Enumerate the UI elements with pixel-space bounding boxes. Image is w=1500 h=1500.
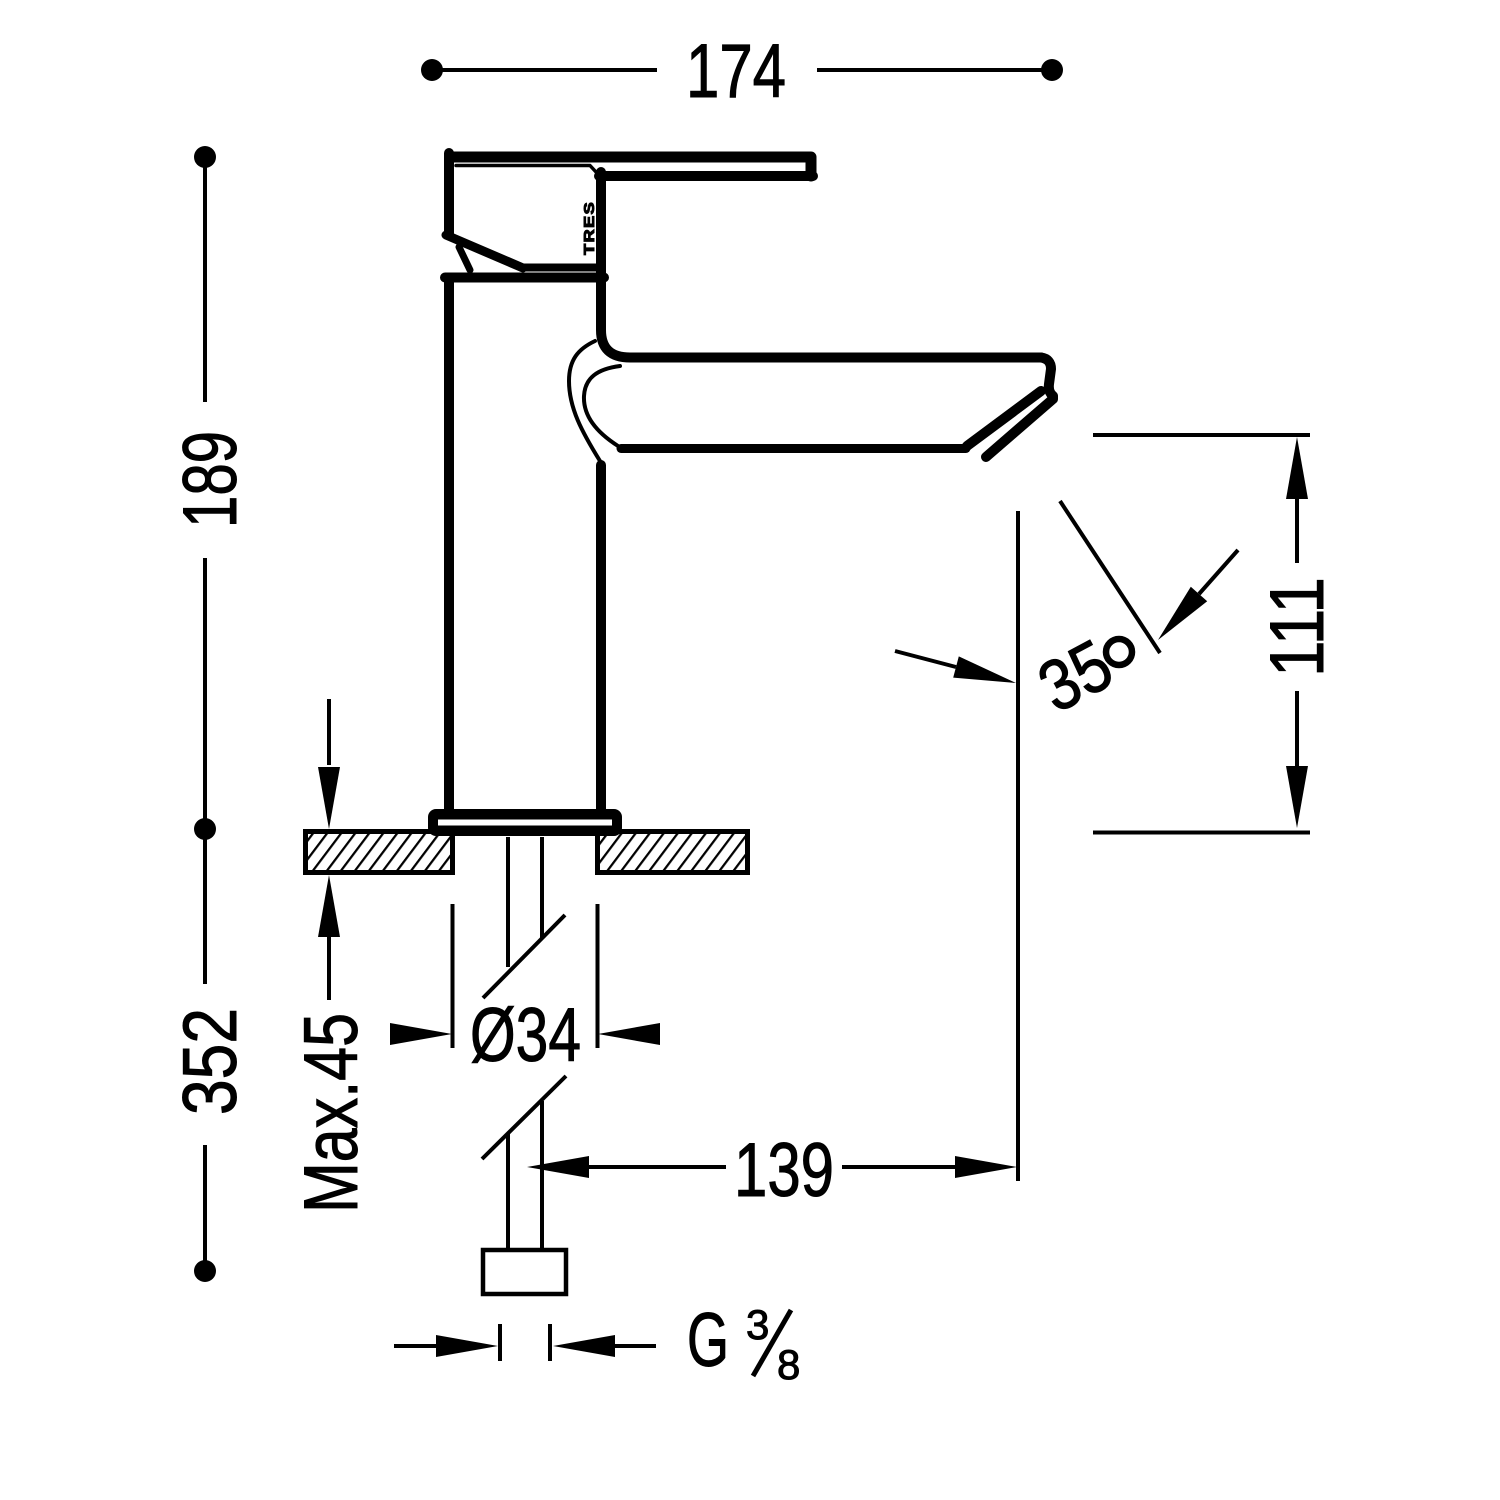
svg-text:111: 111: [1255, 577, 1340, 677]
svg-text:3: 3: [746, 1301, 769, 1348]
svg-text:8: 8: [777, 1341, 800, 1388]
svg-text:174: 174: [686, 29, 786, 114]
svg-text:352: 352: [168, 1008, 253, 1115]
svg-text:139: 139: [734, 1128, 834, 1213]
svg-text:Max.45: Max.45: [289, 1013, 374, 1213]
svg-text:G: G: [687, 1298, 729, 1383]
svg-text:Ø34: Ø34: [470, 993, 581, 1078]
svg-text:TRES: TRES: [581, 201, 598, 255]
svg-text:189: 189: [168, 431, 253, 528]
